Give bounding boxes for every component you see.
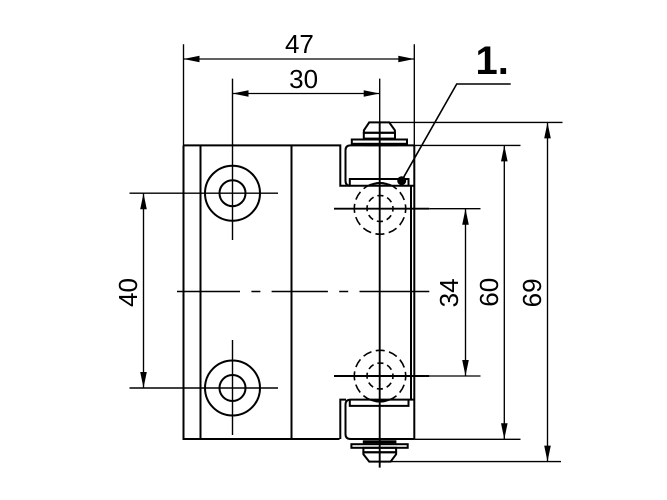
dimension 60 arrows — [501, 145, 508, 439]
top screw washer bar — [365, 144, 398, 147]
dimension 34 extension lines / right hole centerlines — [334, 209, 429, 376]
lower knuckle lip — [350, 400, 409, 406]
dimension 60 line — [503, 145, 505, 439]
svg-text:34: 34 — [434, 278, 464, 307]
dimension 69 arrows — [544, 122, 551, 461]
bottom screw cap — [363, 452, 396, 461]
dimension 30 arrows — [233, 90, 380, 97]
svg-text:69: 69 — [517, 278, 547, 307]
left leaf bend line — [291, 145, 293, 439]
dimension 47 arrows — [184, 56, 415, 63]
dimension 69 extension lines — [389, 122, 563, 461]
svg-text:1.: 1. — [476, 39, 509, 83]
dimension 40 arrows — [140, 193, 147, 388]
horizontal centerline (dash-dot) — [177, 291, 429, 293]
top screw cap — [364, 122, 395, 132]
bottom screw flange — [351, 444, 407, 448]
dimension 30 extension line — [232, 79, 234, 240]
dimension 34 arrows — [462, 209, 469, 376]
lower knuckle box — [346, 400, 415, 439]
lower left hole outer circle — [205, 361, 260, 416]
dimension 40 extension lines / hole centerlines — [130, 193, 279, 388]
svg-text:60: 60 — [474, 278, 504, 307]
upper right hole outer circle (hidden, dashed) — [354, 183, 405, 234]
top screw neck — [364, 133, 395, 139]
svg-text:47: 47 — [285, 29, 314, 59]
lower right hole visible arc — [370, 400, 389, 402]
dimension 60 extension lines — [414, 145, 520, 439]
left leaf flange fold line — [200, 145, 202, 439]
dimension 40 line — [143, 193, 145, 388]
pin centerline — [379, 79, 381, 122]
svg-text:40: 40 — [113, 278, 143, 307]
svg-text:30: 30 — [289, 64, 318, 94]
upper right hole inner circle (hidden, dashed) — [367, 196, 393, 222]
left leaf outline — [184, 145, 351, 439]
dimension 47 extension lines — [184, 44, 415, 145]
right leaf inner edge (edge-on) — [410, 186, 412, 400]
leader line for item 1 — [402, 84, 511, 181]
lower left hole inner circle — [220, 375, 246, 401]
top screw flange — [352, 140, 407, 144]
upper knuckle lip — [350, 179, 409, 186]
lower right hole outer circle (hidden, dashed) — [354, 350, 405, 401]
lower left hole vertical centerline — [232, 340, 234, 435]
lower right hole inner circle (hidden, dashed) — [367, 363, 393, 389]
upper right hole visible arc — [369, 183, 391, 186]
dimension 30 line — [233, 93, 380, 95]
dimension 47 line — [184, 58, 415, 60]
right leaf outer edge (edge-on) — [413, 145, 415, 439]
dimension 34 line — [465, 209, 467, 376]
upper left hole outer circle — [205, 166, 260, 221]
upper knuckle box — [346, 145, 415, 185]
bottom screw washer bar — [363, 440, 397, 443]
bottom screw neck — [363, 448, 396, 453]
dimension 69 line — [547, 122, 549, 461]
upper left hole inner circle — [220, 180, 246, 206]
leader dot — [397, 176, 406, 185]
